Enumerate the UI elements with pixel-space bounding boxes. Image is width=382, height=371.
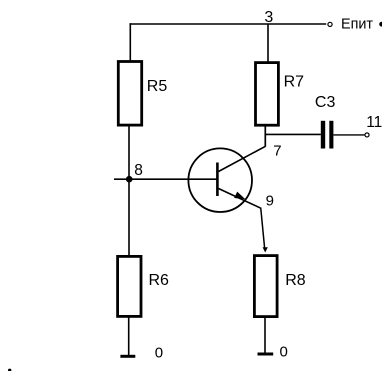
wire base stub to transistor <box>114 178 217 180</box>
transistor emitter wire <box>219 189 262 209</box>
wire capacitor to terminal 11 <box>333 134 364 136</box>
capacitor C3 <box>321 121 334 149</box>
svg-text:8: 8 <box>134 162 143 179</box>
svg-text:11: 11 <box>366 114 382 131</box>
svg-text:Епит: Епит <box>341 17 373 33</box>
svg-text:R5: R5 <box>147 78 168 95</box>
svg-text:0: 0 <box>155 344 163 361</box>
wire top supply rail <box>130 23 327 25</box>
svg-text:C3: C3 <box>315 94 336 111</box>
wire R6 bottom to ground <box>128 316 130 355</box>
resistor R7 <box>256 63 279 126</box>
terminal Епит open circle <box>328 22 332 26</box>
svg-text:7: 7 <box>273 142 281 159</box>
svg-text:R7: R7 <box>284 73 305 90</box>
ground bar right <box>258 353 274 356</box>
transistor collector wire <box>219 146 266 171</box>
wire R8 bottom to ground <box>264 316 266 354</box>
wire node 7 to capacitor <box>265 133 321 135</box>
wire R5 bottom to R6 top <box>128 125 130 256</box>
transistor VT circle <box>188 148 252 212</box>
wire R7 bottom down to collector corner <box>264 125 266 147</box>
terminal 11 open circle <box>365 133 369 137</box>
artifact dot bottom-left <box>8 369 11 371</box>
svg-text:0: 0 <box>280 343 288 360</box>
svg-text:3: 3 <box>264 9 273 26</box>
transistor base bar <box>216 163 219 197</box>
svg-text:9: 9 <box>266 193 274 210</box>
ground bar left <box>120 355 135 358</box>
transistor emitter arrowhead <box>234 192 245 200</box>
arrowhead into R8 <box>263 247 268 252</box>
wire rail to R7 <box>267 24 269 63</box>
resistor R5 <box>118 62 141 126</box>
svg-text:R6: R6 <box>149 272 170 289</box>
svg-text:R8: R8 <box>285 272 306 289</box>
artifact dot right edge <box>379 22 382 27</box>
junction dot node 8 <box>126 176 133 183</box>
wire rail to R5 <box>129 23 131 61</box>
resistor R8 <box>254 256 277 317</box>
resistor R6 <box>118 256 141 316</box>
wire node 9 down to R8 <box>261 208 265 249</box>
